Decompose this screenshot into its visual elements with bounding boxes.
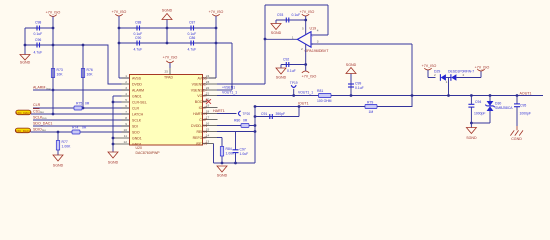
svg-text:+7V_ISO: +7V_ISO bbox=[302, 75, 317, 79]
wire REFOUT row bbox=[217, 138, 222, 164]
pin 16 DVDD-EN bbox=[191, 122, 217, 128]
wire CMP branch vertical bbox=[254, 105, 257, 163]
capacitor C88 bbox=[134, 21, 143, 37]
svg-text:GND1: GND1 bbox=[132, 94, 142, 98]
svg-text:4.7uF: 4.7uF bbox=[134, 48, 143, 52]
wire op-amp output bbox=[265, 38, 297, 40]
svg-text:R73: R73 bbox=[57, 68, 63, 72]
wire R73 lower to CS bbox=[52, 64, 54, 114]
pin 2 DVDD bbox=[122, 80, 143, 86]
svg-text:3: 3 bbox=[125, 86, 127, 90]
svg-text:LATCH: LATCH bbox=[132, 112, 144, 116]
svg-text:9: 9 bbox=[125, 122, 127, 126]
wire AVSS feed bbox=[119, 77, 130, 79]
svg-text:0.1uF: 0.1uF bbox=[287, 69, 296, 73]
svg-text:8: 8 bbox=[125, 116, 127, 120]
svg-text:iso: iso bbox=[40, 110, 44, 114]
svg-text:SGND: SGND bbox=[276, 76, 287, 80]
wire SDIO net bbox=[31, 127, 130, 132]
ground SGND clamp bbox=[466, 123, 477, 140]
svg-text:TPAD: TPAD bbox=[164, 75, 174, 79]
resistor R73 10K bbox=[51, 68, 63, 78]
svg-text:C93: C93 bbox=[277, 13, 283, 17]
ground SGND bank B flipped bbox=[162, 9, 173, 44]
svg-text:0R: 0R bbox=[82, 125, 87, 129]
svg-text:25: 25 bbox=[165, 70, 169, 74]
resistor R76 10K bbox=[81, 68, 93, 78]
node bank B bbox=[118, 27, 121, 30]
svg-text:0.1uF: 0.1uF bbox=[355, 86, 364, 90]
wire op-amp plus input long bbox=[311, 43, 412, 45]
pin 23 VSENSE- bbox=[192, 80, 218, 86]
pin 9 SDI bbox=[122, 122, 138, 128]
svg-text:1: 1 bbox=[125, 74, 127, 78]
svg-text:1.0uF: 1.0uF bbox=[240, 152, 249, 156]
svg-text:OPA196IDBVT: OPA196IDBVT bbox=[305, 49, 330, 53]
svg-text:R77: R77 bbox=[62, 140, 68, 144]
svg-text:SDO: SDO bbox=[132, 130, 140, 134]
svg-text:SGND: SGND bbox=[217, 174, 228, 178]
svg-text:SGND: SGND bbox=[271, 31, 282, 35]
wire clamp bottom rail bbox=[470, 122, 490, 125]
pin 13 ISET-R bbox=[196, 140, 214, 146]
svg-text:SDO_DAC1: SDO_DAC1 bbox=[33, 121, 52, 125]
svg-text:CLR-SEL: CLR-SEL bbox=[132, 100, 147, 104]
wire R76 vertical bbox=[82, 45, 84, 108]
svg-text:GND1: GND1 bbox=[132, 142, 142, 146]
wire VOUT main output net bbox=[217, 91, 543, 96]
svg-text:VSENSE+: VSENSE+ bbox=[191, 88, 207, 92]
svg-text:CS1: CS1 bbox=[33, 109, 40, 113]
svg-text:SGND: SGND bbox=[20, 61, 31, 65]
svg-text:0R: 0R bbox=[85, 101, 90, 105]
svg-text:R79: R79 bbox=[367, 100, 373, 104]
svg-text:GND1: GND1 bbox=[132, 136, 142, 140]
ground SGND op-amp top bbox=[271, 20, 282, 35]
power +7V_ISO rail B right / AVDD bbox=[209, 10, 224, 78]
wire CS net bbox=[31, 109, 130, 114]
svg-text:SGND: SGND bbox=[108, 161, 119, 165]
capacitor C90 bbox=[134, 36, 143, 52]
svg-text:ALARM: ALARM bbox=[132, 88, 144, 92]
capacitor C94 1000pF bbox=[468, 94, 485, 123]
svg-text:SCLK: SCLK bbox=[132, 118, 142, 122]
svg-text:DESD1P0RFW-7: DESD1P0RFW-7 bbox=[448, 69, 474, 73]
svg-text:2: 2 bbox=[434, 73, 436, 77]
svg-text:+7V_ISO: +7V_ISO bbox=[46, 11, 61, 15]
svg-text:CGND: CGND bbox=[511, 137, 522, 141]
svg-text:1.00K: 1.00K bbox=[62, 145, 72, 149]
svg-text:C96: C96 bbox=[35, 38, 41, 42]
svg-text:DVDD: DVDD bbox=[132, 82, 142, 86]
resistor R77 1.00K bbox=[56, 140, 71, 150]
pin 20 BOOST no-connect bbox=[195, 98, 211, 104]
pin 14 REFOUT bbox=[193, 134, 218, 140]
svg-text:4: 4 bbox=[125, 92, 127, 96]
pin 25 TPAD top bbox=[163, 56, 178, 80]
TVS D30 SMBJ58CA bbox=[485, 94, 513, 123]
capacitor C93 0.1uF bbox=[277, 13, 300, 23]
svg-text:ALARM: ALARM bbox=[33, 86, 45, 90]
node GND rail bbox=[112, 101, 115, 104]
svg-text:HART1: HART1 bbox=[213, 109, 225, 113]
svg-text:2: 2 bbox=[463, 73, 465, 77]
pin 3 ALARM bbox=[122, 86, 145, 92]
svg-text:11: 11 bbox=[124, 134, 127, 138]
resistor R79 1M bbox=[365, 100, 377, 114]
op-amp U1 U19 triangle bbox=[292, 26, 329, 53]
svg-text:U19: U19 bbox=[310, 26, 317, 30]
svg-text:C92: C92 bbox=[283, 58, 289, 62]
svg-text:EXC_DAC2: EXC_DAC2 bbox=[15, 129, 31, 133]
svg-text:VOUT1_1: VOUT1_1 bbox=[222, 91, 237, 95]
svg-text:C99: C99 bbox=[355, 82, 361, 86]
svg-text:10: 10 bbox=[124, 128, 128, 132]
svg-text:SGND: SGND bbox=[466, 136, 477, 140]
capacitor C99 branch with flipped ground bbox=[346, 63, 364, 97]
svg-text:5: 5 bbox=[125, 98, 127, 102]
resistor R84 1.00K bbox=[220, 147, 235, 157]
svg-text:1000pF: 1000pF bbox=[520, 112, 532, 116]
svg-text:+7V_ISO: +7V_ISO bbox=[163, 56, 178, 60]
svg-text:0.1uF: 0.1uF bbox=[34, 32, 43, 36]
svg-text:+VSEN1: +VSEN1 bbox=[222, 86, 235, 90]
svg-text:10K: 10K bbox=[87, 73, 94, 77]
pin 7 LATCH bbox=[122, 110, 144, 116]
wire SDIO pulldown stem bbox=[57, 132, 59, 155]
wire IOUT1 net bbox=[255, 102, 412, 107]
wire cap row A2 bbox=[25, 45, 122, 84]
wire C93 row bbox=[276, 19, 306, 21]
pin 22 VSENSE+ bbox=[191, 86, 218, 92]
svg-text:C95: C95 bbox=[520, 104, 526, 108]
capacitor C95 1000pF bbox=[514, 94, 531, 126]
svg-text:TP19: TP19 bbox=[290, 81, 298, 85]
pin 10 SDO bbox=[122, 128, 140, 134]
svg-text:3: 3 bbox=[317, 40, 319, 44]
wire cap row B1 bbox=[119, 27, 216, 29]
svg-text:2: 2 bbox=[125, 80, 127, 84]
svg-text:ISET-R: ISET-R bbox=[196, 142, 208, 146]
wire cap row A1 bbox=[25, 27, 53, 29]
svg-text:10K: 10K bbox=[57, 73, 64, 77]
svg-text:12: 12 bbox=[124, 140, 128, 144]
resistor R80 0R bbox=[234, 119, 249, 128]
svg-text:R75: R75 bbox=[76, 101, 82, 105]
svg-text:0.1uF: 0.1uF bbox=[292, 13, 301, 17]
node A rows bbox=[24, 44, 27, 47]
node op-amp V+ decouple bbox=[304, 19, 307, 22]
svg-text:C87: C87 bbox=[189, 21, 195, 25]
svg-text:1: 1 bbox=[292, 35, 294, 39]
svg-text:C88: C88 bbox=[135, 21, 141, 25]
node op-amp V- decouple bbox=[304, 63, 307, 66]
wire 390pF branch bbox=[255, 105, 300, 116]
pin 11 GND1 bbox=[113, 134, 142, 140]
svg-text:IOUT1: IOUT1 bbox=[298, 102, 309, 106]
svg-text:R74: R74 bbox=[72, 125, 78, 129]
svg-text:R80: R80 bbox=[234, 119, 240, 123]
wire ISET-R drop bbox=[213, 144, 215, 164]
ground SGND A bbox=[20, 55, 31, 65]
svg-text:-: - bbox=[312, 34, 313, 38]
svg-text:+7V_ISO: +7V_ISO bbox=[422, 64, 437, 68]
svg-text:R84: R84 bbox=[226, 147, 232, 151]
pin 4 GND1 bbox=[122, 92, 142, 98]
pin 21 VOUT bbox=[197, 92, 217, 98]
svg-text:C98: C98 bbox=[35, 21, 41, 25]
svg-text:+7V_ISO: +7V_ISO bbox=[475, 66, 490, 70]
svg-text:+: + bbox=[312, 43, 314, 47]
svg-text:AVSS: AVSS bbox=[132, 76, 142, 80]
capacitor C87 bbox=[188, 21, 197, 37]
wire SDO_DAC1 net bbox=[33, 121, 130, 126]
wire REF bottom rail bbox=[214, 162, 256, 165]
svg-text:CLR: CLR bbox=[132, 106, 139, 110]
wire HART net to TP20 bbox=[213, 109, 237, 114]
wire CLR net bbox=[33, 103, 130, 108]
svg-text:5: 5 bbox=[302, 26, 304, 30]
resistor R74 0R bbox=[72, 125, 87, 134]
svg-text:SCLK: SCLK bbox=[33, 115, 43, 119]
svg-text:CLR: CLR bbox=[33, 103, 41, 107]
svg-text:100 OHM: 100 OHM bbox=[317, 99, 332, 103]
pin 1 AVSS bbox=[122, 74, 142, 80]
pin 19 IOUT bbox=[199, 104, 218, 110]
power +7V_ISO diode clamp left bbox=[422, 64, 437, 77]
pin 5 CLR-SEL bbox=[122, 98, 147, 104]
svg-text:SGND: SGND bbox=[162, 9, 173, 13]
wire VSENSE+ net bbox=[217, 43, 235, 90]
svg-text:7: 7 bbox=[125, 110, 127, 114]
svg-text:C94: C94 bbox=[475, 100, 481, 104]
power -7V_ISO op-amp bottom bbox=[302, 71, 317, 79]
wire C92 row bbox=[281, 64, 306, 66]
ground SGND IC left bbox=[108, 152, 119, 165]
svg-text:390pF: 390pF bbox=[276, 112, 286, 116]
svg-text:1: 1 bbox=[446, 80, 448, 84]
wire REFIN row bbox=[217, 131, 255, 133]
svg-text:C91: C91 bbox=[261, 112, 267, 116]
svg-text:DAC8760IPWP: DAC8760IPWP bbox=[136, 151, 161, 155]
wire cap row B2 bbox=[119, 42, 232, 44]
wire VSENSE- net to op-amp output node bbox=[217, 5, 265, 84]
svg-text:6: 6 bbox=[125, 104, 127, 108]
wire plus input drop to output bbox=[411, 44, 414, 107]
capacitor C92 0.1uF bbox=[283, 58, 296, 74]
ground CGND chassis bbox=[510, 126, 523, 141]
svg-text:SGND: SGND bbox=[346, 63, 357, 67]
wire ground stem A bbox=[24, 28, 26, 55]
pin 17 CMP bbox=[199, 116, 217, 122]
resistor R75 0R bbox=[74, 101, 90, 110]
test point TP20 bbox=[238, 111, 250, 116]
svg-text:1M: 1M bbox=[369, 110, 374, 114]
power +7V_ISO rail B left bbox=[112, 10, 127, 78]
wire GND rail left of IC bbox=[113, 96, 122, 152]
svg-text:R81: R81 bbox=[317, 89, 323, 93]
svg-text:iso: iso bbox=[42, 128, 46, 132]
node diode mid bbox=[447, 94, 450, 97]
pin 15 REFIN bbox=[197, 128, 218, 134]
port connector SDIO bbox=[15, 128, 31, 133]
svg-text:SDIO: SDIO bbox=[33, 127, 42, 131]
wire DVDD-EN row with R80 bbox=[217, 125, 255, 127]
wire op-amp V- stem bbox=[305, 44, 307, 71]
svg-text:+7V_ISO: +7V_ISO bbox=[112, 10, 127, 14]
node SDIO pulldown bbox=[57, 131, 60, 134]
svg-text:0R: 0R bbox=[243, 119, 248, 123]
resistor R81 100 OHM bbox=[317, 89, 332, 103]
svg-text:C90: C90 bbox=[135, 36, 141, 40]
capacitor C86 bbox=[188, 36, 197, 52]
svg-text:TP20: TP20 bbox=[243, 112, 251, 116]
node R73 alarm bbox=[52, 89, 55, 92]
svg-text:4: 4 bbox=[317, 29, 319, 33]
svg-text:2: 2 bbox=[301, 47, 303, 51]
svg-text:+7V_ISO: +7V_ISO bbox=[300, 10, 315, 14]
test point TP19 bbox=[290, 81, 298, 97]
svg-text:C86: C86 bbox=[189, 36, 195, 40]
svg-text:1000pF: 1000pF bbox=[474, 112, 486, 116]
diode D29 DESD1P0RFW-7 pair bbox=[434, 69, 481, 84]
port connector CS bbox=[16, 110, 32, 115]
pin 24 AVDD bbox=[198, 74, 216, 80]
svg-text:EXC_DAC1: EXC_DAC1 bbox=[16, 111, 32, 115]
svg-text:+7V_ISO: +7V_ISO bbox=[209, 10, 224, 14]
svg-text:U20: U20 bbox=[136, 146, 142, 150]
pin 12 GND1 bbox=[113, 140, 142, 146]
capacitor C97 1.0uF bbox=[233, 132, 249, 164]
svg-text:SGND: SGND bbox=[53, 164, 64, 168]
capacitor C91 390pF bbox=[261, 112, 285, 119]
svg-text:4.7uF: 4.7uF bbox=[34, 51, 43, 55]
svg-text:AOUT1: AOUT1 bbox=[520, 91, 532, 95]
capacitor C96 bbox=[34, 38, 43, 55]
ground SGND op-amp bottom bbox=[276, 65, 287, 80]
wire op-amp feedback top bbox=[265, 5, 328, 35]
ground SGND REF bbox=[217, 166, 228, 178]
svg-text:C97: C97 bbox=[240, 148, 246, 152]
wire ALARM net bbox=[33, 86, 130, 91]
wire AVDD feed bbox=[209, 77, 216, 79]
node op-amp output bbox=[264, 38, 267, 41]
capacitor C98 bbox=[34, 21, 43, 37]
svg-text:SMBJ58CA: SMBJ58CA bbox=[495, 106, 513, 110]
ground SGND R77 bbox=[53, 155, 64, 168]
svg-text:iso: iso bbox=[43, 116, 47, 120]
power +7V_ISO diode clamp right bbox=[475, 66, 490, 78]
svg-text:SDI: SDI bbox=[132, 124, 138, 128]
svg-text:4.7uF: 4.7uF bbox=[188, 48, 197, 52]
pin 8 SCLK bbox=[122, 116, 142, 122]
wire diode mid drop bbox=[448, 78, 450, 96]
wire SCLK net bbox=[33, 115, 130, 120]
svg-text:VOUT1_1: VOUT1_1 bbox=[298, 91, 313, 95]
power +7V_ISO rail A top-left bbox=[46, 11, 61, 65]
pin 6 CLR bbox=[122, 104, 140, 110]
IC U20 DAC8760IPWP body bbox=[130, 75, 203, 155]
power +7V_ISO op-amp top bbox=[300, 10, 315, 35]
pin 18 HART-IN bbox=[193, 110, 217, 116]
svg-text:R76: R76 bbox=[87, 68, 93, 72]
